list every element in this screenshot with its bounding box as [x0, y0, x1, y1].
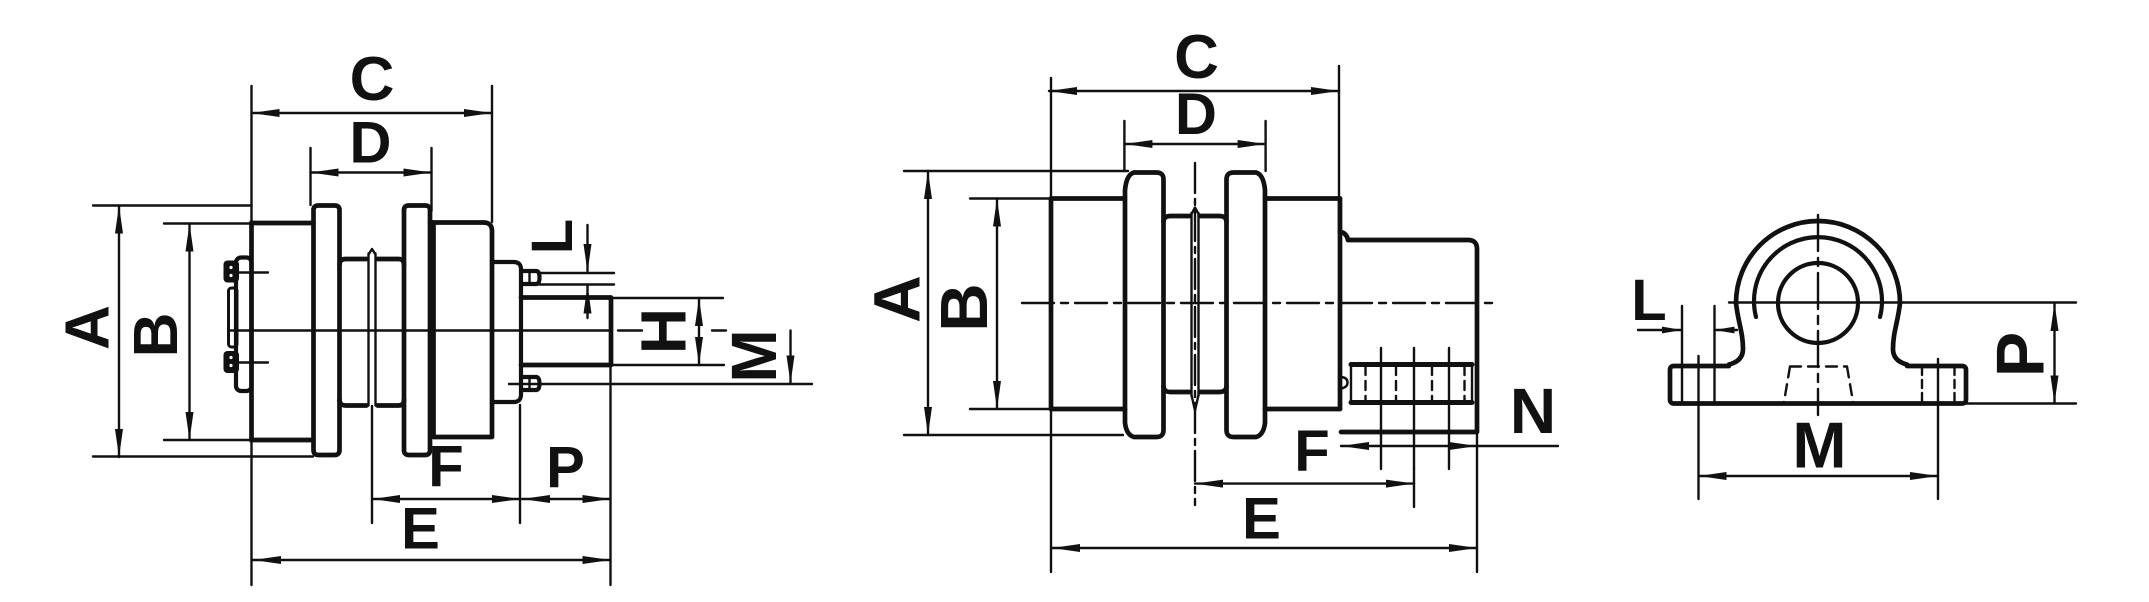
svg-text:M: M [1792, 408, 1846, 481]
svg-text:E: E [401, 496, 440, 561]
svg-text:L: L [1631, 268, 1666, 333]
dim B (middle): extension lines [970, 199, 1051, 410]
left view: pin reference lines (L) [540, 273, 615, 285]
right view: outer arc of bracket [1736, 221, 1900, 303]
svg-text:D: D [1175, 82, 1217, 147]
middle view: horizontal centreline [1022, 302, 1494, 304]
left view: shaft bottom extension line (H) [611, 364, 724, 366]
middle view: roller right face [1338, 199, 1343, 410]
svg-text:B: B [122, 313, 191, 358]
middle view: groove surfaces [1164, 216, 1227, 392]
left view: pin centre reference line (M) [509, 383, 812, 385]
left view: axis centreline [229, 329, 613, 331]
svg-text:F: F [1294, 419, 1329, 484]
dim F (middle): right extension line [1413, 469, 1415, 507]
svg-text:F: F [428, 434, 463, 499]
svg-text:A: A [53, 305, 122, 350]
right view: base bottom extension line (P) [1966, 402, 2076, 404]
dim E (left): dimension line [253, 559, 611, 561]
right view: right hole edge lines [1922, 367, 1955, 402]
dim F (left): extension lines [372, 405, 520, 523]
left view: groove top surface [340, 259, 405, 265]
dim F (middle): dimension line [1195, 482, 1414, 484]
right view: right leg of bracket [1893, 303, 1907, 365]
dim C (left): dimension line [252, 112, 493, 114]
svg-text:B: B [927, 283, 1002, 331]
svg-text:P: P [1982, 332, 2058, 377]
dim F (left): dimension line [372, 498, 520, 500]
dim A (left): dimension line with arrows [118, 206, 120, 458]
middle view: thread hidden dashed lines [1366, 366, 1465, 401]
left view: bottom pin [521, 377, 540, 390]
right view: horizontal centreline (P reference) [1729, 301, 2076, 303]
left view: mounting block [434, 223, 493, 438]
left view: bottom bolt head [224, 351, 240, 373]
dim P (left): extension line [609, 365, 611, 585]
right view: right hole centreline [1937, 359, 1939, 499]
dim C (middle): right extension line [1338, 66, 1340, 233]
middle view: mounting block [1340, 232, 1477, 433]
right view: left hole centreline [1697, 356, 1699, 499]
svg-text:A: A [859, 275, 933, 323]
right view: left leg of bracket [1729, 303, 1743, 365]
left view: top pin [521, 271, 540, 284]
dim M (left): dimension line with arrow [789, 331, 791, 384]
left view: bottom pin step [528, 377, 530, 390]
dim L (left): arrow lines [586, 225, 588, 318]
right view: left hole edge lines [1682, 306, 1715, 402]
dim D (left): dimension line [311, 171, 432, 173]
middle view: right tread edges [1265, 199, 1340, 410]
dim L (right): dimension line with outside arrows [1638, 329, 1737, 331]
right view: hidden centre pedestal [1784, 367, 1853, 403]
dim B (left): dimension line with arrows [188, 224, 190, 441]
left view: shaft outline [521, 298, 611, 366]
left view: top bolt head [224, 261, 240, 283]
left view: retainer plate [229, 288, 238, 347]
left view: right flange outline [404, 206, 430, 456]
dim C (middle): dimension line [1049, 90, 1339, 92]
left view: tread segment at right flange [430, 220, 434, 225]
dim C (left): right extension line [491, 86, 493, 222]
dim M (right): dimension line [1699, 475, 1939, 477]
svg-text:P: P [546, 435, 585, 500]
left view: end cover plate [236, 258, 252, 392]
dim P (right): dimension line with arrows [2053, 303, 2055, 404]
dim H (left): dimension line with arrows [698, 298, 700, 365]
middle view: centre seam with peaks [1192, 208, 1199, 411]
dim E (middle): dimension line [1052, 547, 1477, 549]
left view: tread top edge [252, 221, 314, 226]
right view: vertical centreline [1817, 215, 1819, 415]
right view: base slab [1670, 366, 1966, 404]
svg-text:C: C [350, 45, 395, 114]
left view: bracket boss [492, 262, 521, 402]
svg-text:H: H [628, 308, 700, 354]
left view: centreline extension to dim M [618, 329, 726, 331]
left view: hub face extension line (C/E) [250, 86, 252, 585]
middle view: left tread edges [1051, 199, 1125, 410]
left view: top pin step [528, 271, 530, 284]
dim A (middle): dimension line with arrows [927, 171, 929, 435]
left view: bolt leader lines [239, 273, 268, 363]
left view: tread bottom edge [252, 438, 314, 443]
right view: middle arc of bracket [1754, 237, 1882, 317]
middle view: left flange [1125, 173, 1164, 438]
svg-text:N: N [1510, 375, 1556, 447]
middle view: roller left face [1049, 199, 1054, 410]
dim D (middle): extension lines [1124, 121, 1265, 171]
middle view: threaded boss left step [1341, 377, 1348, 389]
middle view: roller left face extension (C/E) [1050, 78, 1052, 572]
middle view: thread solid lines [1381, 348, 1449, 469]
svg-text:L: L [520, 219, 585, 254]
left view: groove bottom surface [340, 400, 405, 406]
dim B (left): extension lines [164, 224, 252, 441]
left view: left flange outline [314, 206, 340, 456]
right view: bore circle [1778, 263, 1858, 343]
svg-text:E: E [1242, 486, 1281, 551]
dim B (middle): dimension line with arrows [996, 199, 998, 410]
middle view: right flange [1227, 173, 1266, 438]
left view: hub left face [249, 223, 254, 441]
dim P (left): dimension line [522, 498, 611, 500]
svg-text:M: M [718, 329, 790, 382]
dim N (middle): dimension line [1341, 445, 1558, 447]
middle view: vertical centreline [1194, 163, 1196, 505]
svg-text:D: D [350, 110, 392, 175]
left view: centre seam lines with peak [369, 249, 376, 406]
dim D (left): extension lines [311, 148, 432, 211]
dim A (left): extension lines [93, 206, 313, 457]
middle view: threaded boss outline [1351, 365, 1472, 403]
left view: shaft top extension line (H) [611, 297, 723, 299]
dim E (middle): right extension line [1476, 432, 1478, 572]
dim D (middle): dimension line [1124, 143, 1265, 145]
dim A (middle): extension lines [904, 171, 1128, 435]
